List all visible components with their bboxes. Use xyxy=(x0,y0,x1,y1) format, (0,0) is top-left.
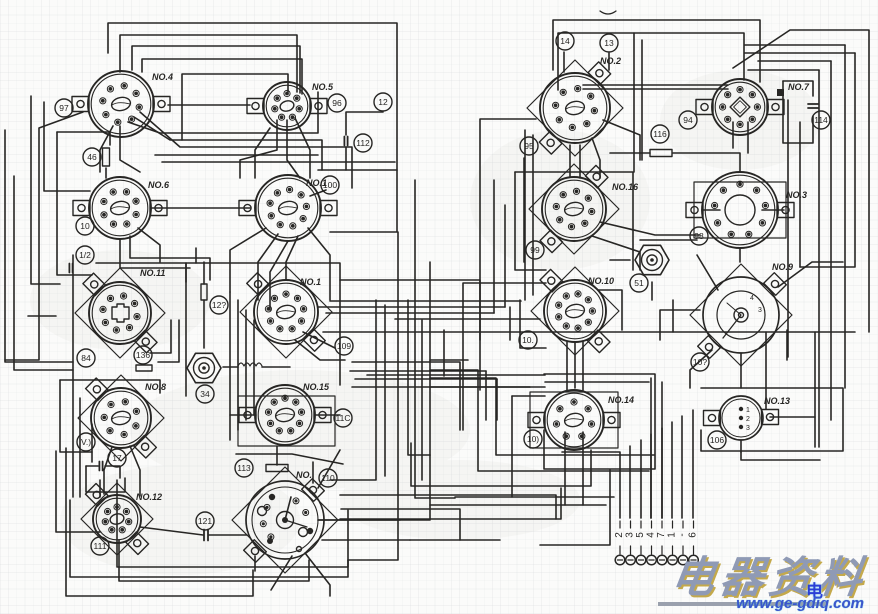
lug 105 xyxy=(76,217,94,235)
wire W163 xyxy=(540,470,610,545)
wire W82 xyxy=(515,172,633,270)
wire W161 xyxy=(564,432,566,505)
svg-text:94: 94 xyxy=(683,115,693,125)
lug 104 xyxy=(524,430,542,448)
capacitor 121 xyxy=(204,530,208,541)
wire W175 xyxy=(545,381,649,383)
trimmer hex 34 xyxy=(187,353,221,382)
svg-text:109: 109 xyxy=(337,341,351,351)
lug 100 xyxy=(321,176,339,194)
terminal strip lug 97 xyxy=(55,99,73,117)
lug 102 xyxy=(519,331,537,349)
wire W116 xyxy=(504,205,506,307)
wire W139 xyxy=(799,122,801,267)
wire W153 xyxy=(650,434,652,518)
wire W134 xyxy=(318,450,340,488)
wire W22 xyxy=(100,126,113,172)
svg-text:NO.8: NO.8 xyxy=(145,382,166,392)
wire W25 xyxy=(295,118,310,178)
wire W85 xyxy=(762,209,784,211)
svg-text:-: - xyxy=(677,533,688,536)
svg-text:2: 2 xyxy=(746,416,750,423)
wire W129 xyxy=(104,447,112,494)
wire W99 xyxy=(660,310,700,340)
capacitor 114 xyxy=(808,104,818,108)
lug 111 xyxy=(91,537,109,555)
tube socket NO.15 xyxy=(239,385,331,445)
lug 106 xyxy=(708,431,726,449)
wire W62 xyxy=(99,480,101,497)
svg-text:11C: 11C xyxy=(336,413,351,423)
wire W186 xyxy=(28,315,56,317)
svg-text:NO.15: NO.15 xyxy=(303,382,330,392)
svg-text:51: 51 xyxy=(634,278,644,288)
tube socket NO.7 xyxy=(239,175,337,241)
wire W80 xyxy=(524,130,526,300)
wire W9 xyxy=(346,169,397,171)
svg-text:NO.3: NO.3 xyxy=(786,190,807,200)
wire W124 xyxy=(56,451,100,532)
svg-text:NO.13: NO.13 xyxy=(764,396,790,406)
wire W75 xyxy=(673,153,740,172)
wire W95 xyxy=(745,52,855,54)
svg-text:116: 116 xyxy=(653,129,667,139)
wire W150 xyxy=(562,452,620,518)
dark lug diamond xyxy=(777,89,784,96)
wire W177 xyxy=(512,395,545,397)
wire W64 xyxy=(70,500,348,577)
lug 116 xyxy=(651,125,669,143)
wire W159 xyxy=(430,504,606,506)
svg-text:NO.10: NO.10 xyxy=(588,276,614,286)
wire W44 xyxy=(318,306,505,308)
wire W68 xyxy=(553,20,760,82)
resistor 46 xyxy=(103,148,110,166)
lug 98 xyxy=(690,227,708,245)
mounting plate NO.16 xyxy=(529,164,619,254)
wire W198 xyxy=(340,488,561,519)
wire W127 xyxy=(91,424,93,462)
lug 14 xyxy=(556,32,574,50)
wire W57 xyxy=(86,465,98,467)
wire W59 xyxy=(86,466,125,492)
wire W66 xyxy=(318,519,400,521)
wire W14 xyxy=(44,102,90,191)
wire W193 xyxy=(640,239,697,241)
mounting plate 109 xyxy=(240,266,332,358)
mounting plate NO.15 xyxy=(238,396,335,446)
wire W4 xyxy=(142,59,302,94)
wire W120 xyxy=(223,366,238,368)
wire W73 xyxy=(783,81,813,143)
wire W194 xyxy=(672,300,674,332)
wire W182 xyxy=(814,332,816,447)
svg-text:NO.6: NO.6 xyxy=(148,180,170,190)
resistor 113 xyxy=(266,465,288,472)
label 121 xyxy=(196,512,214,530)
wire W144 xyxy=(600,222,700,235)
lug 109 xyxy=(335,337,353,355)
lug 116b xyxy=(334,409,352,427)
wire W88 xyxy=(844,45,846,388)
wire W168 xyxy=(303,332,335,348)
wire W84 xyxy=(702,209,720,211)
dial socket NO.9 xyxy=(698,273,787,359)
svg-text:106: 106 xyxy=(710,435,724,445)
wire W141 xyxy=(592,138,600,178)
capacitor 17 xyxy=(99,462,102,471)
wire W50 xyxy=(237,300,239,430)
tube socket NO.14 xyxy=(528,390,620,450)
wire W23 xyxy=(240,120,277,178)
wire W72 xyxy=(783,81,813,96)
wire W101 xyxy=(574,342,576,388)
wire W195 xyxy=(697,255,718,290)
wire W6 xyxy=(168,104,250,106)
wire W166 xyxy=(485,371,487,420)
wire W18 xyxy=(128,92,318,133)
wire W170 xyxy=(138,228,160,262)
coil L1 xyxy=(238,363,262,366)
wire W94 xyxy=(733,30,869,332)
svg-text:10): 10) xyxy=(527,434,539,444)
svg-text:1: 1 xyxy=(667,532,678,538)
label 51 xyxy=(630,274,648,292)
wire W164 xyxy=(741,452,820,460)
wire W128 xyxy=(130,446,140,496)
wire W37 xyxy=(185,263,187,282)
wire W136 xyxy=(633,33,635,172)
wire W58 xyxy=(105,466,120,478)
wire W188 xyxy=(463,283,546,430)
wire W34 xyxy=(286,236,298,279)
svg-text:7: 7 xyxy=(656,532,667,538)
wire W117 xyxy=(323,331,855,333)
wire W192 xyxy=(312,462,314,483)
wire W48 xyxy=(352,386,530,388)
svg-text:V.): V.) xyxy=(81,437,91,447)
socket NO.13 xyxy=(704,396,779,440)
wire W27 xyxy=(120,240,190,268)
wire W47 xyxy=(355,378,497,380)
wire W143 xyxy=(747,122,749,153)
wire W13 xyxy=(31,96,60,284)
wire W32 xyxy=(258,234,278,300)
svg-text:NO.11: NO.11 xyxy=(140,268,165,278)
wire W11 xyxy=(5,130,73,362)
wire W113 xyxy=(421,320,423,480)
svg-text:3: 3 xyxy=(625,532,636,538)
wire W49 xyxy=(229,292,231,440)
resistor r-136 xyxy=(136,365,152,371)
lug 127 xyxy=(210,296,228,314)
wire W109 xyxy=(150,320,171,353)
lug 110 xyxy=(319,469,337,487)
tube socket NO.6 xyxy=(73,177,167,239)
wire W162 xyxy=(582,432,584,505)
svg-text:99: 99 xyxy=(530,245,540,255)
lug 172 xyxy=(76,246,94,264)
wire W145 xyxy=(592,236,640,270)
wire W28 xyxy=(130,236,210,280)
wire W15 xyxy=(57,132,110,145)
wire W63 xyxy=(117,480,348,567)
wire W36 xyxy=(96,263,340,385)
wire W69 xyxy=(558,33,744,90)
svg-text:3: 3 xyxy=(746,425,750,432)
svg-text:10: 10 xyxy=(80,221,90,231)
mounting plate NO.14 xyxy=(530,392,618,448)
wire W40 xyxy=(415,180,455,498)
svg-text:111: 111 xyxy=(94,541,107,551)
svg-text:3: 3 xyxy=(758,307,762,314)
capacitor 112 xyxy=(344,137,347,146)
svg-text:5: 5 xyxy=(635,532,646,538)
wire W33 xyxy=(270,241,288,310)
wire W167 xyxy=(295,340,345,360)
wire W199 xyxy=(66,448,253,596)
wire W21 xyxy=(120,126,140,172)
wire W171 xyxy=(255,128,270,178)
mounting plate NO.10 xyxy=(531,267,619,355)
tube socket NO.16 xyxy=(540,165,608,252)
wire W126 xyxy=(79,398,81,497)
svg-text:95: 95 xyxy=(524,141,534,151)
svg-text:46: 46 xyxy=(87,152,97,162)
wire W169 xyxy=(310,190,326,196)
wire W2 xyxy=(120,35,297,92)
wire W185 xyxy=(661,382,663,518)
wire W93 xyxy=(748,69,819,71)
lug 84 xyxy=(77,349,95,367)
tube socket NO.10 xyxy=(540,269,610,352)
wire W24 xyxy=(287,120,300,178)
watermark url xyxy=(806,577,823,602)
wire W10 xyxy=(5,112,83,360)
svg-text:121: 121 xyxy=(198,516,212,526)
wire W7 xyxy=(346,112,383,135)
lug 103 xyxy=(691,353,709,371)
watermark underline xyxy=(658,602,826,606)
wire W90 xyxy=(830,61,832,420)
svg-text:NO.1: NO.1 xyxy=(300,277,321,287)
wire W35 xyxy=(308,228,330,300)
capacitor C-left xyxy=(69,264,72,273)
wire W87 xyxy=(800,53,855,267)
wire W191 xyxy=(395,318,540,320)
wire W65 xyxy=(119,540,309,581)
mounting plate NO.3 xyxy=(694,182,786,238)
wire W172 xyxy=(430,359,468,361)
svg-text:114: 114 xyxy=(814,115,828,125)
wire W71 xyxy=(583,88,728,90)
wire W86 xyxy=(739,248,741,262)
mounting plate NO.9 xyxy=(690,264,792,366)
wire W98 xyxy=(740,353,742,388)
tube socket NO.2 xyxy=(539,62,610,154)
wire W190 xyxy=(509,307,511,340)
svg-text:NO.2: NO.2 xyxy=(600,56,621,66)
wire W74 xyxy=(610,152,650,154)
tube socket NO.8 xyxy=(86,378,157,458)
label 17 xyxy=(108,449,126,467)
wire W140 xyxy=(603,120,640,160)
wire W157 xyxy=(692,410,694,518)
tube socket NO.12 xyxy=(85,484,148,555)
tube socket NO.4 xyxy=(72,71,170,137)
lug 113 xyxy=(235,459,253,477)
label 34 xyxy=(196,385,214,403)
wire W8 xyxy=(318,147,346,170)
wire W180 xyxy=(765,332,767,409)
svg-text:98: 98 xyxy=(694,231,704,241)
wire W196 xyxy=(411,443,591,486)
label 112 xyxy=(354,134,372,152)
wire W108 xyxy=(203,262,205,284)
wire W60 xyxy=(140,527,203,535)
wire W184 xyxy=(650,378,652,518)
wire W77 xyxy=(608,53,610,70)
tube socket mid-109 xyxy=(247,273,325,351)
wire W104 xyxy=(701,388,843,451)
wire W119 xyxy=(352,362,460,430)
wire W183 xyxy=(770,416,815,418)
mounting plate NO.11 xyxy=(75,268,165,358)
wire W78 xyxy=(569,145,571,176)
svg-text:NO.7: NO.7 xyxy=(788,82,810,92)
svg-text:84: 84 xyxy=(81,353,91,363)
wire W56 xyxy=(230,414,256,416)
wire W149 xyxy=(690,350,712,388)
wire W132 xyxy=(271,556,292,590)
wire W131 xyxy=(254,556,256,571)
wire W165 xyxy=(496,379,498,420)
tube socket NO.3 xyxy=(686,172,794,248)
svg-text:NO.9: NO.9 xyxy=(772,262,793,272)
wire W158 xyxy=(455,496,614,498)
lug 99 xyxy=(526,241,544,259)
wire W19 xyxy=(134,117,322,170)
svg-text:136: 136 xyxy=(136,350,150,360)
wire W83 xyxy=(515,172,546,270)
wire W70 xyxy=(583,84,728,86)
wire W142 xyxy=(732,122,734,148)
wire W154 xyxy=(661,428,663,518)
svg-text:110: 110 xyxy=(321,473,335,483)
svg-text:97: 97 xyxy=(59,103,69,113)
svg-text:4: 4 xyxy=(750,295,754,302)
wire W105 xyxy=(740,440,742,452)
svg-text:112: 112 xyxy=(356,138,370,148)
wire W176 xyxy=(430,386,545,388)
wire W174 xyxy=(430,378,654,455)
wire W31 xyxy=(230,228,266,292)
wire W1 xyxy=(108,23,397,232)
wire W147 xyxy=(598,290,622,330)
wire W12 xyxy=(14,176,73,370)
wire W111 xyxy=(330,300,376,480)
wire W96 xyxy=(651,282,653,300)
wire W100 xyxy=(566,342,568,390)
wire W178 xyxy=(511,396,513,497)
wire W137 xyxy=(641,40,643,160)
mounting plate NO.12 xyxy=(81,483,153,555)
potentiometer socket xyxy=(232,467,338,573)
wire W112 xyxy=(384,305,386,476)
lug 136 xyxy=(134,346,152,364)
svg-text:13: 13 xyxy=(604,38,614,48)
wire W106 xyxy=(185,263,187,396)
wire W148 xyxy=(778,262,843,287)
wire W152 xyxy=(640,440,642,518)
svg-text:96: 96 xyxy=(332,98,342,108)
label 46 xyxy=(83,148,101,166)
resistor above hex xyxy=(201,284,207,300)
wire W45 xyxy=(326,312,494,314)
mounting plate NO.2 xyxy=(527,60,623,156)
svg-text:NO.16: NO.16 xyxy=(612,182,639,192)
tube socket NO.11 xyxy=(83,273,157,353)
watermark 电器资料 xyxy=(668,543,873,605)
wire W123 xyxy=(276,446,278,465)
wire W16 xyxy=(57,132,92,275)
wire W41 xyxy=(408,300,430,455)
wire W17 xyxy=(105,168,107,178)
wire W130 xyxy=(318,455,430,520)
wire W51 xyxy=(245,310,247,420)
wire W92 xyxy=(818,70,820,447)
wire W125 xyxy=(72,255,74,497)
svg-text:NO.5: NO.5 xyxy=(312,82,334,92)
wire W42 xyxy=(340,280,480,340)
wire W5 xyxy=(182,74,288,140)
resistor 116 xyxy=(650,150,672,157)
tube socket NO.2b diamond xyxy=(696,79,784,135)
lug 96 xyxy=(328,94,346,112)
lug VV xyxy=(77,433,95,451)
wire W133 xyxy=(305,553,330,596)
squiggle xyxy=(600,11,616,14)
wire W146 xyxy=(520,300,546,348)
wire W30 xyxy=(162,161,395,163)
lug 95 xyxy=(520,137,538,155)
svg-text:12?: 12? xyxy=(212,300,226,310)
mounting plate NO.8 xyxy=(78,375,164,461)
wire W138 xyxy=(787,100,789,357)
wire W102 xyxy=(582,342,584,390)
svg-text:NO.12: NO.12 xyxy=(136,492,162,502)
wire W121 xyxy=(262,366,290,368)
wire W110 xyxy=(158,320,179,362)
svg-text:NO.: NO. xyxy=(296,470,312,480)
lug 94 xyxy=(679,111,697,129)
wire W181 xyxy=(786,330,788,360)
svg-text:14: 14 xyxy=(560,36,570,46)
svg-text:2: 2 xyxy=(614,532,625,538)
wire W135 xyxy=(341,509,460,540)
wire W52 xyxy=(253,320,255,415)
wire W46 xyxy=(350,370,486,372)
wire W115 xyxy=(493,180,495,313)
wire W53 xyxy=(60,380,160,393)
terminal strip xyxy=(614,521,699,565)
svg-text:10?: 10? xyxy=(693,357,707,367)
svg-text:10.: 10. xyxy=(522,335,534,345)
wire W122 xyxy=(236,454,343,464)
wire W39 xyxy=(348,232,398,560)
wire W81 xyxy=(532,135,534,295)
wire W26 xyxy=(152,207,250,209)
